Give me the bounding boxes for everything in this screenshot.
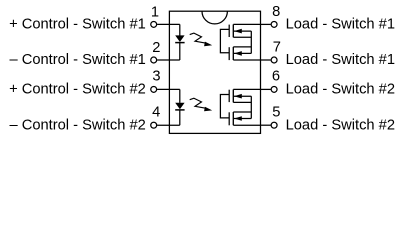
- package pin-1 end notch: [202, 11, 227, 24]
- transistor Q1a channel bar: [232, 24, 234, 37]
- transistor Q2a source tap: [233, 101, 251, 103]
- pin 3 circle: [151, 86, 157, 92]
- LED D2 cathode rail: [179, 110, 181, 125]
- transistor Q2a gate bar: [228, 90, 230, 102]
- svg-text:Load - Switch #2: Load - Switch #2: [286, 118, 395, 134]
- pin 1 wire: [157, 23, 180, 25]
- transistor Q1a body line: [233, 30, 251, 32]
- LED D2 anode rail: [179, 89, 181, 103]
- transistor Q1b channel bar: [232, 47, 234, 60]
- transistor Q1a gate bar: [228, 25, 230, 37]
- transistor Q2b channel bar: [232, 112, 234, 125]
- transistor Q2a body line: [233, 95, 251, 97]
- transistor Q2b drain tap to pin 5: [233, 124, 260, 126]
- pin 5 circle: [271, 122, 277, 128]
- light arrow switch #2: [190, 98, 213, 111]
- pin 6 wire: [261, 88, 271, 90]
- svg-text:Load - Switch #1: Load - Switch #1: [286, 16, 395, 32]
- pin 4 wire: [157, 124, 180, 126]
- transistor Q1b body line: [233, 52, 251, 54]
- IC package U1 outline: [169, 11, 260, 133]
- svg-text:2: 2: [152, 40, 160, 56]
- pin 5 wire: [261, 124, 271, 126]
- LED D2 triangle: [175, 103, 184, 110]
- pin 7 wire: [261, 59, 271, 61]
- LED D1 triangle: [175, 35, 184, 42]
- LED D1 cathode rail: [179, 43, 181, 60]
- pin 1 circle: [151, 21, 157, 27]
- pin 2 circle: [151, 57, 157, 63]
- pin 6 circle: [271, 86, 277, 92]
- pin 2 wire: [157, 59, 180, 61]
- light arrow switch #1: [190, 33, 213, 46]
- pin 8 circle: [271, 21, 277, 27]
- svg-text:+ Control - Switch #2: + Control - Switch #2: [9, 82, 146, 98]
- transistor Q1b body arrow: [234, 51, 242, 56]
- svg-text:5: 5: [272, 105, 280, 121]
- transistor Q1a source tap: [233, 36, 251, 38]
- pin 4 circle: [151, 122, 157, 128]
- transistor Q1b gate bar: [228, 47, 230, 60]
- pin 7 circle: [271, 57, 277, 63]
- svg-text:8: 8: [272, 4, 280, 20]
- transistor Q2b source tap: [233, 111, 251, 113]
- transistor Q2a channel bar: [232, 89, 234, 102]
- transistor Q1a drain tap to pin 8: [233, 23, 260, 25]
- svg-text:– Control - Switch #1: – Control - Switch #1: [9, 52, 145, 68]
- svg-text:1: 1: [151, 5, 159, 21]
- transistor Q1b drain tap to pin 7: [233, 59, 260, 61]
- transistor Q2b body line: [233, 118, 251, 120]
- LED D1 cathode bar: [175, 42, 184, 44]
- LED D1 anode rail: [179, 24, 181, 35]
- pin 3 wire: [157, 88, 180, 90]
- svg-text:– Control - Switch #2: – Control - Switch #2: [9, 118, 145, 134]
- MOSFET pair switch #2 gate bracket: [220, 95, 229, 118]
- LED D2 cathode bar: [175, 109, 184, 111]
- svg-text:4: 4: [152, 105, 160, 121]
- transistor Q2b gate bar: [228, 112, 230, 125]
- transistor Q1a body arrow: [234, 29, 242, 34]
- transistor Q2a body arrow: [234, 94, 242, 99]
- svg-text:3: 3: [152, 68, 160, 84]
- svg-text:7: 7: [273, 40, 281, 56]
- pin 8 wire: [261, 23, 271, 25]
- MOSFET pair switch #1 gate bracket: [220, 29, 229, 52]
- transistor Q2a drain tap to pin 6: [233, 88, 260, 90]
- svg-text:Load - Switch #2: Load - Switch #2: [286, 82, 395, 98]
- common source bus switch #2: [250, 96, 252, 118]
- svg-text:6: 6: [272, 69, 280, 85]
- transistor Q2b body arrow: [234, 116, 242, 121]
- svg-text:Load - Switch #1: Load - Switch #1: [286, 52, 395, 68]
- svg-text:+ Control - Switch #1: + Control - Switch #1: [9, 16, 146, 32]
- transistor Q1b source tap: [233, 46, 251, 48]
- common source bus switch #1: [250, 31, 252, 53]
